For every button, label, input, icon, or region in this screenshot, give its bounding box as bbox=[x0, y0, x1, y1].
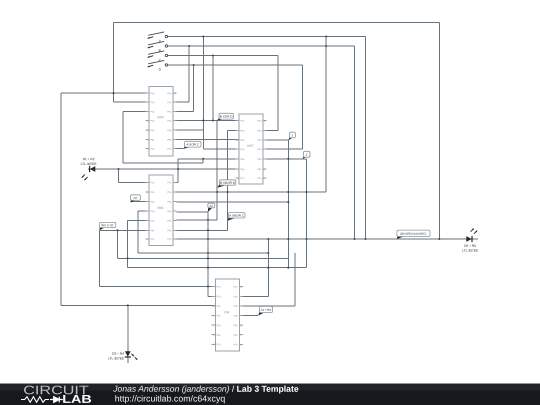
LED D3 (D3 + R4 LTL-307EE) bbox=[108, 351, 137, 360]
net flag F4: A XNOR C bbox=[228, 213, 246, 221]
svg-text:P6b: P6b bbox=[257, 169, 262, 171]
svg-text:P6b: P6b bbox=[167, 140, 172, 142]
svg-text:P5a: P5a bbox=[240, 159, 245, 161]
svg-text:LTL-307EE: LTL-307EE bbox=[462, 249, 478, 253]
svg-text:P1b: P1b bbox=[167, 93, 172, 95]
svg-text:P4a: P4a bbox=[150, 211, 155, 213]
svg-text:A XNOR C: A XNOR C bbox=[229, 214, 245, 218]
wire U3 pin5 left bbox=[128, 221, 307, 268]
svg-text:P3b: P3b bbox=[257, 140, 262, 142]
svg-text:P2b: P2b bbox=[167, 102, 172, 104]
net flag F2: A XOR C bbox=[184, 141, 202, 148]
net flag F10: A1 + B1 bbox=[258, 306, 273, 315]
svg-text:P7b: P7b bbox=[257, 178, 262, 180]
svg-text:B XOR D: B XOR D bbox=[220, 115, 233, 119]
wire switch A net bbox=[168, 37, 366, 240]
net flag F1: B XOR D bbox=[217, 113, 234, 120]
svg-text:P3a: P3a bbox=[150, 112, 155, 114]
wire U3 pin4 left bbox=[138, 211, 268, 253]
svg-text:P6a: P6a bbox=[240, 169, 245, 171]
svg-text:P2a: P2a bbox=[150, 102, 155, 104]
svg-text:(BXORD)+(AXORC): (BXORD)+(AXORC) bbox=[400, 232, 426, 236]
svg-text:LAB: LAB bbox=[62, 394, 92, 405]
svg-text:LTL-307EE: LTL-307EE bbox=[81, 162, 97, 166]
wire switch C net bbox=[168, 56, 279, 131]
svg-text:P3a: P3a bbox=[240, 140, 245, 142]
net flag F9: (BXORD)+(AXORC) bbox=[397, 230, 430, 239]
wire U1 pin7 stub (A XOR C) bbox=[177, 148, 184, 150]
svg-text:P1a: P1a bbox=[150, 93, 155, 95]
net flag F11: INV C&#x27;+D&#x27; bbox=[99, 222, 116, 230]
svg-text:P3a: P3a bbox=[150, 202, 155, 204]
svg-text:P4a: P4a bbox=[217, 316, 222, 318]
svg-text:P2a: P2a bbox=[240, 131, 245, 133]
svg-text:B XNOR D: B XNOR D bbox=[220, 181, 236, 185]
wire U3 pin1 tap bbox=[119, 169, 150, 182]
svg-text:P2b: P2b bbox=[167, 192, 172, 194]
wire U2 pin5 right to bus bbox=[263, 159, 307, 268]
svg-text:P1a: P1a bbox=[240, 121, 245, 123]
wire LED1 net to U2 pin6 bbox=[88, 168, 239, 170]
wire U1 pin4 to U2 pin1 (B XOR D) bbox=[177, 121, 239, 220]
wire U3 pin4 right stub bbox=[177, 211, 208, 213]
svg-text:P7a: P7a bbox=[240, 178, 245, 180]
LED D1 (D1 + R2 LTL-307EE) bbox=[81, 157, 97, 180]
svg-text:P7a: P7a bbox=[150, 239, 155, 241]
svg-text:P7a: P7a bbox=[216, 344, 221, 346]
IC U1 (XOR) bbox=[145, 87, 176, 157]
switch SW_C (SW3) bbox=[148, 51, 168, 62]
svg-text:P6b: P6b bbox=[234, 335, 239, 337]
svg-text:P1b: P1b bbox=[257, 121, 262, 123]
wire U2 pin3 right to bus bbox=[263, 140, 288, 268]
svg-text:P1a: P1a bbox=[217, 287, 222, 289]
svg-text:P7a: P7a bbox=[150, 149, 155, 151]
wire U4 pin2 right bbox=[243, 239, 268, 296]
wire U3 pin3 left stub bbox=[131, 201, 149, 203]
wire U3 pin3 right bbox=[177, 201, 289, 203]
wire switch D net bbox=[168, 65, 303, 149]
svg-text:P1b: P1b bbox=[167, 182, 172, 184]
svg-text:P2b: P2b bbox=[234, 296, 239, 298]
svg-text:P4b: P4b bbox=[257, 149, 262, 151]
svg-text:P7b: P7b bbox=[167, 239, 172, 241]
net flag F7: 2 bbox=[303, 151, 311, 159]
svg-text:P1b: P1b bbox=[234, 287, 239, 289]
svg-text:P7b: P7b bbox=[234, 344, 239, 346]
wire U3 pin6 right to U2 pin2 bbox=[177, 131, 239, 231]
svg-text:P3b: P3b bbox=[167, 112, 172, 114]
svg-text:P2a: P2a bbox=[150, 192, 155, 194]
svg-text:P5a: P5a bbox=[150, 130, 155, 132]
wire switch B net bbox=[168, 46, 355, 239]
svg-text:A2': A2' bbox=[133, 196, 138, 200]
wire U1 pin1 left loop to U4 pin3 bbox=[61, 93, 215, 305]
wire U3 pin2 long output bbox=[177, 191, 327, 193]
net flag F8: A2 bbox=[208, 203, 215, 212]
net flag F6: 2 bbox=[288, 132, 295, 140]
svg-text:P3b: P3b bbox=[234, 306, 239, 308]
svg-text:P1a: P1a bbox=[150, 182, 155, 184]
svg-text:A1 + B1: A1 + B1 bbox=[261, 308, 272, 312]
svg-text:P5b: P5b bbox=[167, 130, 172, 132]
svg-text:P5a: P5a bbox=[150, 221, 155, 223]
switch SW_D (SW4) bbox=[148, 60, 168, 71]
wire LED3 drop bbox=[127, 305, 129, 363]
svg-text:P4a: P4a bbox=[240, 149, 245, 151]
switch SW_B (SW2) bbox=[148, 41, 168, 52]
wire U4 pin3 right bbox=[243, 253, 295, 306]
switch SW_A (SW1) bbox=[148, 32, 168, 43]
svg-text:XOR: XOR bbox=[157, 115, 164, 119]
svg-text:A2: A2 bbox=[209, 204, 213, 208]
wire top border loop bbox=[113, 23, 439, 239]
svg-text:NOT: NOT bbox=[247, 144, 254, 148]
LED D2 (D5 + R6 LTL-307EE) bbox=[462, 229, 478, 253]
wire U3 pin6 net to flag and U4 pin1 bbox=[100, 230, 289, 286]
CircuitLab logo: diode symbol bbox=[50, 397, 63, 403]
IC U4 (OR) bbox=[212, 279, 243, 351]
IC U3 (AND) bbox=[145, 175, 176, 246]
svg-text:P7b: P7b bbox=[167, 149, 172, 151]
svg-text:P5b: P5b bbox=[167, 221, 172, 223]
svg-text:A XOR C: A XOR C bbox=[186, 143, 199, 147]
svg-text:P6a: P6a bbox=[150, 140, 155, 142]
net flag F3: B XNOR D bbox=[217, 180, 236, 188]
svg-text:D1 + R2: D1 + R2 bbox=[83, 157, 95, 161]
svg-text:P6a: P6a bbox=[216, 335, 221, 337]
svg-text:Jonas Andersson (jandersson) /: Jonas Andersson (jandersson) / Lab 3 Tem… bbox=[112, 384, 299, 394]
svg-text:LTL-307EE: LTL-307EE bbox=[108, 356, 124, 360]
svg-text:AND: AND bbox=[157, 206, 164, 210]
wire U3 pin7 output to LED2 (BXORD+AXORC) bbox=[177, 238, 478, 240]
svg-text:P5b: P5b bbox=[257, 159, 262, 161]
svg-text:http://circuitlab.com/c64xcyq: http://circuitlab.com/c64xcyq bbox=[115, 393, 226, 403]
svg-text:P4a: P4a bbox=[150, 121, 155, 123]
svg-text:P2b: P2b bbox=[257, 131, 262, 133]
svg-text:P6b: P6b bbox=[167, 230, 172, 232]
svg-text:P4b: P4b bbox=[167, 211, 172, 213]
svg-text:P3b: P3b bbox=[167, 202, 172, 204]
wire U4 pin4 right stub bbox=[243, 315, 258, 317]
svg-text:P6a: P6a bbox=[150, 230, 155, 232]
svg-text:D5 + R6: D5 + R6 bbox=[464, 244, 476, 248]
svg-text:INV C'+D': INV C'+D' bbox=[101, 223, 114, 227]
net flag F5: A2&#x27; bbox=[131, 195, 141, 203]
footer bar bbox=[0, 384, 540, 405]
svg-text:P5a: P5a bbox=[217, 325, 222, 327]
wire pin4 flag net down to U4 pin2 bbox=[208, 212, 215, 296]
svg-text:P2a: P2a bbox=[217, 296, 222, 298]
wire U1 pin5 to U2 pin4 bbox=[177, 130, 239, 149]
IC U2 (NOT) bbox=[235, 114, 266, 184]
svg-text:P4b: P4b bbox=[167, 121, 172, 123]
wire U1 pin3 jog to U2 pin5 bbox=[123, 112, 239, 183]
CircuitLab logo: resistor squiggle bbox=[21, 397, 49, 403]
svg-text:P4b: P4b bbox=[234, 316, 239, 318]
svg-text:D3 + R4: D3 + R4 bbox=[112, 352, 124, 356]
svg-text:P5b: P5b bbox=[234, 325, 239, 327]
svg-text:P3a: P3a bbox=[217, 306, 222, 308]
wire U1 pin6 to U2 pin3 bbox=[177, 139, 239, 141]
